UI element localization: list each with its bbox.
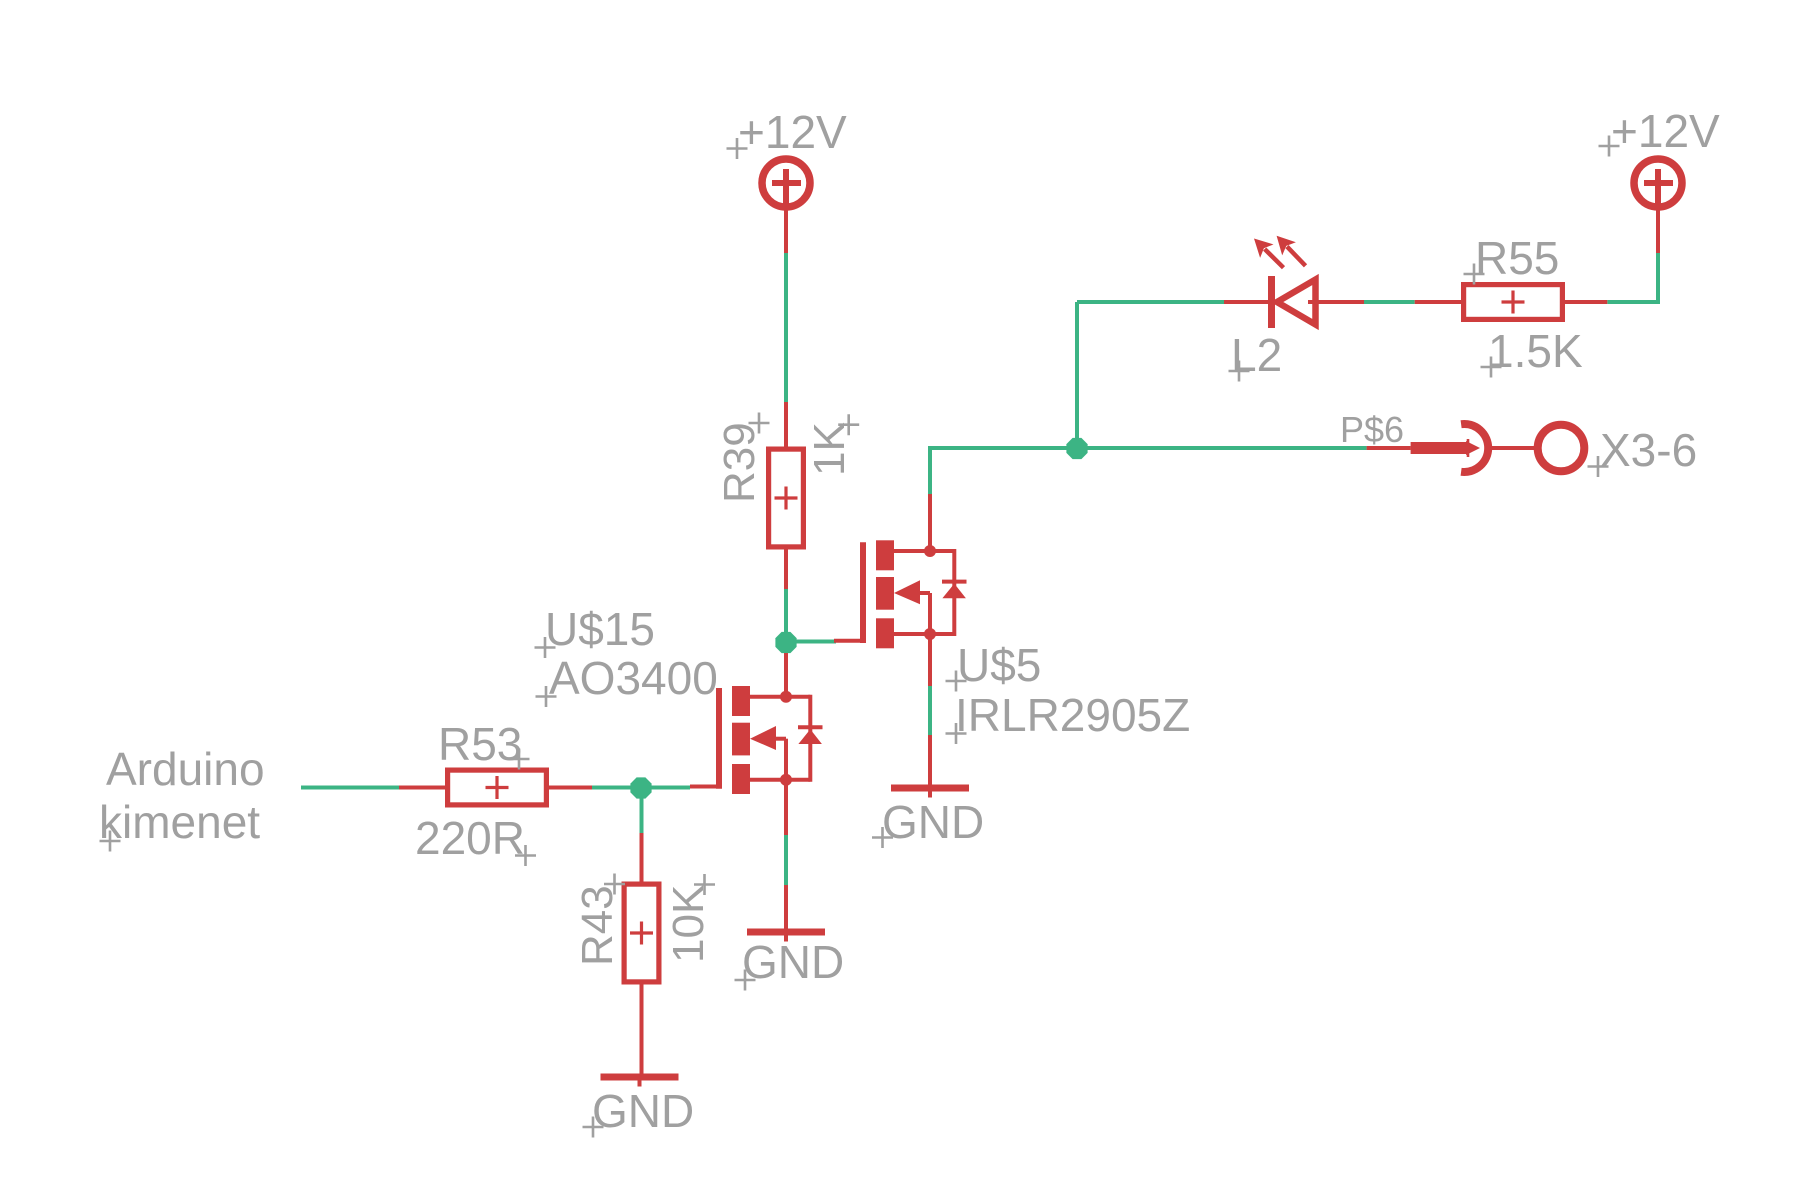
resistor R53 220R: [448, 770, 547, 805]
resistor R43 10K: [624, 884, 659, 982]
svg-text:GND: GND: [742, 936, 844, 988]
svg-text:kimenet: kimenet: [99, 796, 260, 848]
pin LED anode stub: [1308, 300, 1364, 304]
svg-text:220R: 220R: [415, 812, 525, 864]
svg-text:U$5: U$5: [957, 639, 1041, 691]
svg-text:1K: 1K: [805, 422, 854, 476]
svg-text:1.5K: 1.5K: [1488, 325, 1583, 377]
transistor U$5 IRLR2905Z N-MOSFET: [834, 540, 967, 648]
pin R55 pin2: [1562, 300, 1607, 304]
wire net U$5 drain vertical: [928, 448, 932, 494]
svg-text:R43: R43: [573, 885, 622, 966]
svg-text:U$15: U$15: [545, 603, 655, 655]
svg-text:P$6: P$6: [1340, 409, 1404, 450]
resistor R39 1K: [769, 449, 804, 547]
wire net R53 to U$15 gate node: [592, 786, 690, 790]
pin R53 pin2: [547, 786, 592, 790]
wire net drain row horizontal to P$6: [928, 446, 1367, 450]
pin R39 pin1: [784, 402, 788, 448]
pin R39 pin2: [784, 548, 788, 589]
pin LED cathode stub: [1224, 300, 1268, 304]
junction node R39/U$15/U$5-gate: [775, 632, 796, 653]
wire net U$15 source to GND: [784, 835, 788, 885]
resistor R55 1.5K: [1464, 285, 1563, 320]
svg-text:+12V: +12V: [738, 106, 847, 158]
svg-text:AO3400: AO3400: [549, 652, 718, 704]
wire net U$5 source to GND: [928, 686, 932, 735]
pin GND1 stub: [784, 885, 788, 932]
svg-text:GND: GND: [592, 1085, 694, 1137]
pin U$15 source stub: [784, 778, 788, 835]
wire net LED to R55: [1364, 300, 1415, 304]
junction node drain/LED/P$6: [1066, 438, 1087, 459]
svg-text:GND: GND: [882, 796, 984, 848]
svg-text:IRLR2905Z: IRLR2905Z: [955, 689, 1190, 741]
svg-text:R55: R55: [1475, 232, 1559, 284]
svg-text:R39: R39: [715, 422, 764, 503]
wire +12V net: R39 top to +12V symbol: [784, 253, 788, 402]
wire net R55 to +12V corner: [1607, 300, 1658, 304]
pin GND2 stub: [928, 735, 932, 788]
ground GND3 under R43: [601, 1074, 679, 1081]
svg-text:10K: 10K: [664, 885, 713, 963]
power +12V symbol left: [762, 159, 810, 207]
wire net R39 bottom to gate node: [784, 589, 788, 653]
wire net R39 node to U$5 gate: [786, 640, 836, 644]
power +12V symbol right: [1634, 159, 1682, 207]
svg-text:+12V: +12V: [1611, 105, 1720, 157]
wire net LED branch horizontal: [1077, 300, 1224, 304]
pin R43 pin1: [640, 833, 644, 886]
junction node R53/R43/U$15-gate: [630, 777, 651, 798]
svg-text:X3-6: X3-6: [1600, 424, 1697, 476]
transistor U$15 AO3400 N-MOSFET: [690, 686, 823, 794]
pin R43 pin2 to GND3: [640, 980, 644, 1077]
pin R53 pin1: [399, 786, 447, 790]
pin U$15 drain stub: [784, 653, 788, 698]
pin R55 pin1: [1415, 300, 1464, 304]
svg-text:R53: R53: [438, 718, 522, 770]
ground GND1 under U$15: [747, 929, 825, 936]
wire net gate node down to R43: [640, 788, 644, 834]
ground GND2 under U$5: [891, 785, 969, 792]
connector pin P$6 of X3-6: [1367, 446, 1411, 450]
wire net Arduino kimenet to R53: [301, 786, 399, 790]
wire net LED branch vertical: [1075, 302, 1079, 448]
pin U$5 drain stub: [928, 494, 932, 553]
pin U$5 source stub: [928, 632, 932, 686]
LED L2: [1268, 276, 1275, 328]
svg-text:Arduino: Arduino: [106, 743, 265, 795]
